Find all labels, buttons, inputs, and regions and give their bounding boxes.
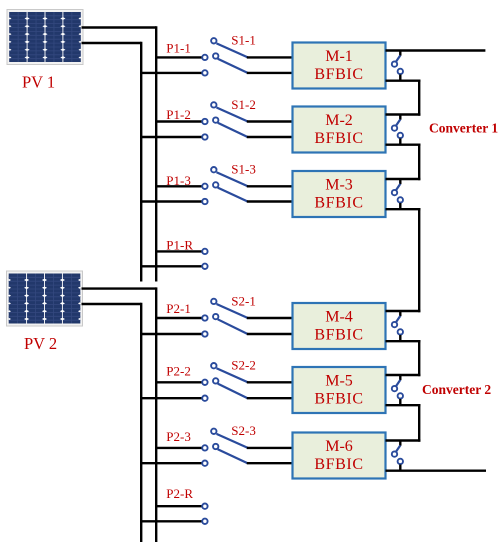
wire branch P1-1 upper from bus B — [156, 56, 201, 58]
switch S1-1 (2-pole, open) — [202, 38, 248, 76]
module M-3 BFBIC box — [293, 171, 386, 217]
svg-text:P2-3: P2-3 — [166, 429, 191, 444]
wire branch P2-3 lower from bus A — [141, 462, 201, 464]
wire S1-1 upper pole to module input — [247, 56, 295, 58]
wire branch P1-1 lower from bus A — [141, 72, 201, 74]
bypass switch of module M-1 (open) — [392, 51, 403, 81]
wire S1-2 lower pole to module input — [247, 136, 295, 138]
bus B vertical (PV1 section) — [155, 26, 157, 281]
wire branch P1-R lower from bus A — [141, 265, 201, 267]
wire PV2 bottom output to bus A — [82, 303, 142, 305]
switch S1-3 (2-pole, open) — [202, 167, 248, 204]
bypass switch of module M-4 (open) — [392, 311, 403, 341]
svg-text:M-4: M-4 — [325, 309, 353, 326]
wire branch P1-R upper from bus B — [156, 250, 201, 252]
wire branch P1-2 lower from bus A — [141, 136, 201, 138]
wire branch P2-1 lower from bus A — [141, 333, 201, 335]
module M-1 BFBIC box — [293, 43, 386, 89]
wire module M-2 bottom output — [386, 143, 421, 145]
module M-4 BFBIC box — [293, 303, 386, 349]
wire series link M-3 to M-4 — [418, 208, 420, 312]
svg-text:P1-3: P1-3 — [166, 173, 191, 188]
wire branch P2-3 upper from bus B — [156, 447, 201, 449]
svg-text:S2-2: S2-2 — [231, 358, 256, 373]
wire module M-1 bottom output — [386, 79, 421, 81]
bypass switch of module M-6 (open) — [392, 441, 403, 471]
svg-text:Converter 2: Converter 2 — [422, 382, 491, 397]
wire S2-2 upper pole to module input — [247, 381, 295, 383]
wire module M-1 top output rail (converter 1 +) — [386, 49, 486, 51]
wire branch P1-3 lower from bus A — [141, 200, 201, 202]
svg-text:M-1: M-1 — [325, 48, 353, 65]
wire series link M-2 to M-3 — [418, 144, 420, 181]
wire S1-2 upper pole to module input — [247, 120, 295, 122]
bypass switch of module M-2 (open) — [392, 115, 403, 145]
svg-text:BFBIC: BFBIC — [314, 130, 363, 147]
module M-2 BFBIC box — [293, 107, 386, 153]
svg-text:BFBIC: BFBIC — [314, 391, 363, 408]
wire module M-2 top output — [386, 113, 421, 115]
wire branch P2-R lower from bus A — [141, 520, 201, 522]
svg-text:P1-R: P1-R — [166, 237, 193, 252]
svg-text:M-2: M-2 — [325, 112, 353, 129]
wire S1-3 upper pole to module input — [247, 185, 295, 187]
svg-text:P1-2: P1-2 — [166, 107, 191, 122]
wire module M-3 top output — [386, 178, 421, 180]
wire module M-5 top output — [386, 374, 421, 376]
svg-text:PV 1: PV 1 — [22, 73, 55, 92]
bus A vertical (PV1 section) — [140, 42, 142, 282]
wire module M-6 bottom output rail (converter 2 -) — [386, 470, 487, 472]
wire branch P2-2 upper from bus B — [156, 381, 201, 383]
wire S1-1 lower pole to module input — [247, 72, 295, 74]
svg-text:M-5: M-5 — [325, 373, 353, 390]
wire PV1 bottom output to bus A — [82, 42, 142, 44]
svg-text:BFBIC: BFBIC — [314, 456, 363, 473]
module M-6 BFBIC box — [293, 433, 386, 479]
wire module M-3 bottom output — [386, 208, 421, 210]
wire module M-6 top output — [386, 439, 421, 441]
svg-text:P1-1: P1-1 — [166, 41, 191, 56]
module M-5 BFBIC box — [293, 367, 386, 413]
terminal contacts P2-R (unconnected reserve) — [202, 504, 207, 525]
wire S2-3 upper pole to module input — [247, 447, 295, 449]
switch S1-2 (2-pole, open) — [202, 102, 248, 139]
wire branch P2-2 lower from bus A — [141, 397, 201, 399]
wire series link M-4 to M-5 — [418, 340, 420, 376]
svg-text:P2-1: P2-1 — [166, 301, 191, 316]
svg-text:BFBIC: BFBIC — [314, 195, 363, 212]
wire S2-1 upper pole to module input — [247, 317, 295, 319]
switch S2-3 (2-pole, open) — [202, 429, 248, 466]
wire S2-1 lower pole to module input — [247, 333, 295, 335]
svg-text:P2-2: P2-2 — [166, 364, 191, 379]
svg-text:S1-1: S1-1 — [231, 33, 256, 48]
svg-text:BFBIC: BFBIC — [314, 327, 363, 344]
wire S2-3 lower pole to module input — [247, 462, 295, 464]
bus B vertical (PV2 section) — [155, 287, 157, 542]
terminal contacts P1-R (unconnected reserve) — [202, 249, 207, 269]
wire S2-2 lower pole to module input — [247, 397, 295, 399]
wire S1-3 lower pole to module input — [247, 200, 295, 202]
svg-text:S1-3: S1-3 — [231, 162, 256, 177]
switch S2-1 (2-pole, open) — [202, 299, 248, 337]
svg-text:S2-3: S2-3 — [231, 423, 256, 438]
svg-text:Converter 1: Converter 1 — [429, 121, 498, 136]
svg-text:S2-1: S2-1 — [231, 293, 256, 308]
wire PV1 top output to bus B — [82, 26, 157, 28]
solar panel PV2 — [7, 271, 83, 326]
wire series link M-1 to M-2 — [418, 80, 420, 116]
bypass switch of module M-3 (open) — [392, 179, 403, 209]
svg-text:BFBIC: BFBIC — [314, 66, 363, 83]
wire PV2 top output to bus B — [82, 287, 157, 289]
svg-text:M-3: M-3 — [325, 177, 353, 194]
wire series link M-5 to M-6 — [418, 404, 420, 442]
wire branch P2-R upper from bus B — [156, 505, 201, 507]
wire branch P1-3 upper from bus B — [156, 185, 201, 187]
svg-text:M-6: M-6 — [325, 438, 353, 455]
svg-text:PV 2: PV 2 — [24, 334, 57, 353]
solar panel PV1 — [7, 10, 83, 65]
svg-text:S1-2: S1-2 — [231, 97, 256, 112]
wire branch P2-1 upper from bus B — [156, 317, 201, 319]
wire module M-5 bottom output — [386, 404, 421, 406]
wire module M-4 bottom output — [386, 340, 421, 342]
wire branch P1-2 upper from bus B — [156, 120, 201, 122]
switch S2-2 (2-pole, open) — [202, 363, 248, 401]
wire module M-4 top output — [386, 310, 421, 312]
bus A vertical (PV2 section) — [140, 303, 142, 542]
bypass switch of module M-5 (open) — [392, 375, 403, 405]
svg-text:P2-R: P2-R — [166, 486, 193, 501]
